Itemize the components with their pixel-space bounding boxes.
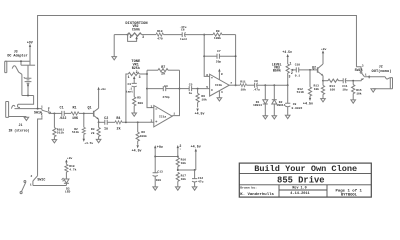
resistor R12 [297,70,313,107]
node +4.5v level pot [282,50,292,64]
node pin8 flag [177,144,182,157]
svg-text:SW1C: SW1C [37,178,45,182]
svg-text:10u: 10u [342,88,348,91]
svg-text:1: 1 [365,73,367,76]
wire battery row [21,64,35,66]
svg-text:C3: C3 [127,83,131,86]
ground C12 [192,187,197,190]
svg-text:C4: C4 [164,85,168,88]
svg-text:+9v: +9v [321,48,327,51]
svg-text:C6: C6 [181,29,185,32]
wire right rail IC1a output [172,70,180,115]
ground J1 sleeve [24,117,29,120]
wire distortion gain rail [203,34,209,77]
resistor R2 [72,113,94,144]
svg-text:1N914: 1N914 [253,104,262,107]
resistor R16 [176,158,186,171]
svg-text:SW1A: SW1A [34,110,42,114]
ground R101 [52,140,57,143]
svg-text:BYTBOOL: BYTBOOL [341,194,358,198]
svg-text:511k: 511k [72,130,79,134]
svg-text:+9v: +9v [157,146,163,150]
J1 input jack [6,102,27,118]
wire riser to tone pot [126,74,128,122]
capacitor C11 [342,78,361,91]
potentiometer VR2 DISTORTION [114,22,147,42]
svg-text:+4.5v: +4.5v [84,142,93,145]
svg-text:1: 1 [173,112,175,115]
switch SW1B [355,64,367,80]
capacitor C12 [192,170,204,187]
svg-text:C5: C5 [189,84,193,87]
capacitor C4 [147,85,180,99]
capacitor C10 [295,64,318,78]
wire R4 to IC1a pin3 [122,121,154,123]
svg-text:C1: C1 [60,106,64,110]
wire feedback right rail [235,35,237,87]
resistor R101 [53,113,64,139]
resistor R6 [132,122,147,152]
svg-text:J3: J3 [14,49,18,53]
svg-text:1u: 1u [104,127,108,131]
svg-text:6: 6 [206,74,208,77]
svg-text:1N914: 1N914 [276,104,285,107]
ground IC1b pin4 [217,91,223,101]
svg-text:10k: 10k [181,177,187,181]
svg-text:470: 470 [157,38,163,41]
svg-text:+4.5v: +4.5v [195,112,205,116]
resistor R14 [328,79,343,91]
ground R15 [351,100,356,103]
wire Q2 emitter row [322,76,328,82]
svg-text:+9V: +9V [27,41,33,45]
svg-text:.022: .022 [58,117,66,121]
node +9V supply [27,41,33,66]
svg-text:100: 100 [330,88,336,91]
svg-text:Build Your Own Clone: Build Your Own Clone [254,164,357,174]
svg-text:+: + [23,77,25,80]
resistor R7 [147,66,180,77]
resistor R1 [71,106,79,121]
svg-text:1: 1 [180,148,182,151]
wire pot pin3 to rail [139,73,147,75]
svg-text:2k: 2k [91,131,95,135]
wire bias top row [154,156,179,158]
capacitor C9 [285,85,302,115]
svg-text:R4: R4 [116,117,120,121]
svg-text:47u: 47u [198,181,204,184]
svg-text:2: 2 [362,78,364,81]
resistor R10 [156,30,164,40]
svg-text:R6: R6 [141,131,145,134]
ground C13 [153,187,158,190]
resistor R11 [240,80,247,91]
potentiometer VR1 TONE [128,60,141,83]
svg-text:3: 3 [288,75,290,79]
svg-text:1: 1 [30,183,32,186]
svg-text:100k: 100k [214,36,221,40]
svg-text:10k: 10k [356,91,362,95]
resistor R15 [352,81,362,100]
svg-text:1u: 1u [189,92,193,95]
svg-text:1: 1 [128,75,130,79]
svg-text:2: 2 [136,70,138,74]
transistor Q2 [312,64,323,76]
node +9v at Q1 collector [97,87,106,108]
svg-text:0.1: 0.1 [295,75,301,78]
wire dc jack to +9V rail [5,60,30,62]
capacitor C13 [153,157,163,187]
svg-text:4.7k: 4.7k [69,168,76,172]
node +4.5v flag [191,145,201,170]
wire signal row to pot [287,84,289,86]
wire Q1 emitter [98,119,100,123]
svg-text:2: 2 [30,175,32,178]
svg-text:1: 1 [289,62,291,66]
svg-text:10k: 10k [181,161,187,165]
svg-text:20p: 20p [216,60,222,63]
svg-text:3: 3 [142,35,144,39]
ground C9 [285,115,290,118]
svg-text:C9: C9 [293,103,297,106]
svg-text:+9v: +9v [67,157,73,160]
resistor R19 [65,164,77,179]
LED D3 [61,178,70,193]
ground D2 [272,116,277,119]
ground J2 sleeve [371,89,376,92]
svg-text:1: 1 [41,106,43,109]
svg-text:IC1a: IC1a [159,115,166,118]
switch SW1C [20,175,45,193]
wire J1 tip to SW1A [15,108,42,110]
svg-text:2k: 2k [117,126,121,131]
potentiometer VR3 LEVEL [272,62,297,86]
resistor R13 [313,81,324,99]
svg-text:3: 3 [139,75,141,79]
svg-text:511k: 511k [57,130,64,134]
svg-text:tant: tant [126,91,133,94]
svg-text:1: 1 [129,35,131,39]
svg-text:2: 2 [291,71,293,75]
svg-text:+9v: +9v [100,88,106,91]
wire pot to R10 [142,34,156,36]
svg-text:3: 3 [150,119,152,122]
switch SW1A [34,106,51,118]
J3 DC adapter jack [5,61,22,74]
resistor R9 [204,30,235,40]
diode D2 [272,84,286,115]
svg-text:8: 8 [221,73,223,76]
svg-text:C10: C10 [295,64,301,67]
node +9v bias supply [154,145,163,156]
resistor R4 [115,117,122,131]
svg-text:J2: J2 [379,64,383,68]
capacitor C8 [247,80,288,91]
svg-text:+4.5v: +4.5v [132,148,142,152]
resistor R5 [133,96,144,113]
wire battery bottom [22,74,34,96]
battery BT1 [23,65,31,95]
svg-text:Rev 1.0: Rev 1.0 [292,187,306,191]
svg-text:LED: LED [65,190,71,193]
node IC1b pin8 +9v [218,69,223,80]
svg-text:K. Vanderhulls: K. Vanderhulls [240,192,274,197]
wire +4.5v node [177,169,196,171]
svg-text:100: 100 [156,179,162,182]
svg-text:tant: tant [180,38,187,41]
transistor Q1 [87,107,98,120]
svg-text:R5: R5 [137,96,141,99]
svg-text:R7: R7 [161,66,165,70]
wire bypass loop top [38,15,357,108]
capacitor C3 [126,83,137,97]
resistor R17 [176,172,186,187]
capacitor C7 [204,50,235,63]
svg-text:+4.5v: +4.5v [282,50,292,54]
svg-text:5: 5 [206,86,208,89]
svg-text:10k: 10k [201,98,207,102]
svg-text:4: 4 [221,91,223,94]
svg-text:R11: R11 [240,80,246,83]
svg-text:R3: R3 [91,128,95,131]
svg-text:OUT(mono): OUT(mono) [372,69,392,74]
ground R13 [321,99,326,102]
svg-text:Q2: Q2 [312,66,316,70]
svg-text:C2: C2 [104,117,108,121]
svg-text:IC1b: IC1b [215,83,222,87]
svg-text:100k: 100k [140,134,147,138]
op-amp IC1b [206,74,232,96]
svg-text:R1: R1 [72,106,76,110]
svg-text:J1: J1 [19,123,23,127]
svg-text:2k: 2k [161,72,165,77]
svg-text:0.0022: 0.0022 [292,107,303,110]
node +9v LED supply [65,157,72,164]
node +9v Q2 collector [321,48,327,64]
diode D1 [253,84,268,115]
svg-text:2: 2 [150,105,152,108]
wire IC1b output [229,84,240,86]
svg-text:3: 3 [362,64,364,67]
capacitor C2 [99,117,115,131]
ground distortion pot [112,35,117,60]
resistor R8 [195,89,207,116]
wire SW1B to J2 [364,75,385,78]
ground R17 [176,187,181,190]
resistor R3 [91,122,100,139]
svg-text:SW1B: SW1B [355,68,363,72]
svg-text:Q1: Q1 [87,107,91,111]
svg-text:R10: R10 [157,30,163,33]
svg-text:10K: 10K [72,117,79,121]
title block [239,163,371,197]
wire SW1A out [51,112,62,114]
svg-text:680: 680 [138,102,144,105]
svg-text:Drawn by:: Drawn by: [240,186,257,190]
wire SW1A pin2 loop to SW1C [38,117,42,176]
ground D1 [263,116,268,119]
label J1 [8,123,29,133]
op-amp IC1a [150,105,175,127]
capacitor C5 [180,84,210,95]
svg-text:855 Drive: 855 Drive [277,176,325,186]
svg-text:B50k: B50k [273,69,281,74]
svg-text:C12: C12 [198,177,204,180]
svg-text:511K: 511K [297,91,304,94]
wire ring drop [18,96,34,105]
svg-text:C50k: C50k [132,28,140,33]
ground R3 [96,139,101,142]
svg-text:10k: 10k [240,87,246,91]
svg-text:470p: 470p [162,96,169,99]
wire left feedback rail [146,70,154,107]
svg-text:DC Adapter: DC Adapter [7,54,27,59]
svg-text:3: 3 [48,107,50,110]
svg-text:C7: C7 [217,50,221,53]
svg-text:C8: C8 [254,80,258,83]
svg-text:+4.5v: +4.5v [191,145,201,149]
wire tick junction [20,60,22,65]
wire R1 to Q1 base [79,112,94,114]
svg-text:4-14-2011: 4-14-2011 [290,192,309,196]
ground R5 [132,113,137,116]
svg-text:IN (stereo): IN (stereo) [8,128,29,132]
svg-text:C13: C13 [157,170,163,173]
svg-text:.47u: .47u [253,89,260,92]
J2 output jack [373,77,392,89]
capacitor C6 [164,26,205,41]
capacitor C1 [58,106,71,121]
svg-text:R9: R9 [216,30,220,33]
label J2 [372,64,392,74]
svg-text:+4.5v: +4.5v [303,103,313,107]
label J3 [7,49,27,58]
wire SW1C to LED [33,185,67,187]
svg-text:10k: 10k [314,87,320,91]
